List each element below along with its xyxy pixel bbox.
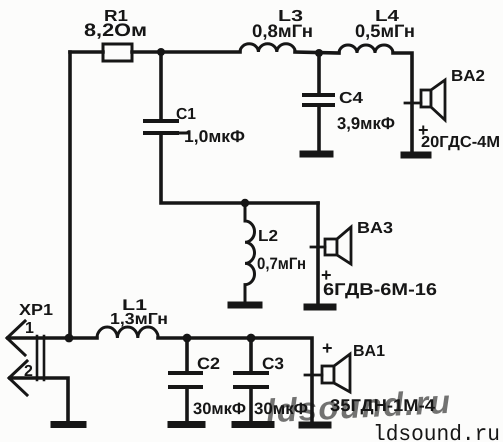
wire stub to BA2 <box>405 102 421 105</box>
ground under C3 <box>235 421 271 428</box>
capacitor C4 <box>304 95 333 105</box>
wire L3 to L4 through node B <box>295 52 339 53</box>
svg-text:ldsound.ru: ldsound.ru <box>373 422 500 442</box>
node A junction dot <box>157 48 165 56</box>
svg-text:C4: C4 <box>339 90 363 107</box>
svg-text:1: 1 <box>25 320 34 337</box>
resistor R1 <box>103 44 132 61</box>
wire L1 to BA1 corner through junctions <box>158 338 312 420</box>
wire down to BA3 and ground <box>316 203 320 304</box>
junction dot C3 <box>247 334 256 343</box>
capacitor C2 <box>170 373 201 387</box>
svg-text:C1: C1 <box>176 106 196 123</box>
wire top left from corner to R1 <box>70 50 103 54</box>
inductor L3 <box>240 44 295 52</box>
ground under C2 <box>171 421 202 428</box>
connector XP1 pin 1 arrow <box>7 321 25 355</box>
capacitor C1 <box>145 121 189 133</box>
svg-text:BA1: BA1 <box>353 343 385 360</box>
svg-text:C3: C3 <box>262 355 284 373</box>
connector XP1 pin 2 arrow <box>9 361 27 395</box>
wire junction down to C2 <box>185 338 189 371</box>
connector XP1 body lines <box>37 336 44 380</box>
ground under BA1 wire <box>302 422 328 429</box>
ground under C4 <box>303 151 330 158</box>
svg-text:2: 2 <box>24 363 33 380</box>
wire R1 to L3 through node A <box>132 50 240 54</box>
svg-text:3,9мкФ: 3,9мкФ <box>337 114 395 133</box>
wire junction down to C3 <box>249 338 253 371</box>
junction dot left bottom <box>65 334 74 343</box>
ground under L2 <box>231 302 259 309</box>
wire stub to BA3 <box>311 246 325 249</box>
wire L4 to BA2, corner down to ground <box>393 53 412 153</box>
wire node A down to C1 <box>159 52 163 119</box>
svg-text:XP1: XP1 <box>19 302 53 319</box>
ground under BA3 <box>307 304 333 311</box>
wire stub to BA1 <box>305 374 322 377</box>
svg-text:30мкФ: 30мкФ <box>254 400 308 418</box>
svg-text:6ГДВ-6М-16: 6ГДВ-6М-16 <box>323 280 437 299</box>
svg-text:35ГДН-1М-4: 35ГДН-1М-4 <box>330 396 436 415</box>
junction dot C2 <box>183 334 192 343</box>
ground under pin2 <box>54 421 83 428</box>
svg-text:L2: L2 <box>258 228 278 245</box>
svg-text:C2: C2 <box>197 355 220 373</box>
wire C1 down, corner right to BA3 branch <box>161 135 318 203</box>
wire node B down to C4 <box>317 53 321 93</box>
ground under BA2 <box>404 152 428 159</box>
inductor L2 <box>245 203 255 302</box>
node B junction dot <box>315 49 323 57</box>
svg-text:BA3: BA3 <box>357 220 393 237</box>
wire pin2 to ground <box>10 378 68 420</box>
inductor L4 <box>339 45 393 53</box>
wire C2 to ground <box>185 389 189 420</box>
capacitor C3 <box>235 373 267 387</box>
inductor L1 <box>97 327 158 338</box>
wire pin1 to L1 through left junction <box>8 336 97 340</box>
svg-text:0,5мГн: 0,5мГн <box>355 21 415 41</box>
svg-text:+: + <box>322 338 333 358</box>
node C junction dot <box>241 199 249 207</box>
speaker BA1 <box>322 354 350 392</box>
svg-text:0,7мГн: 0,7мГн <box>257 255 306 273</box>
svg-text:20ГДС-4М: 20ГДС-4М <box>421 134 500 151</box>
svg-text:1,3мГн: 1,3мГн <box>110 311 168 328</box>
svg-text:0,8мГн: 0,8мГн <box>252 21 313 41</box>
speaker BA2 <box>421 80 445 120</box>
wire C3 to ground <box>249 389 253 420</box>
svg-text:BA2: BA2 <box>451 68 485 85</box>
speaker BA3 <box>325 227 351 264</box>
wire C4 to ground <box>317 107 321 151</box>
wire left vertical from XP1 pin1 junction up to R1 row <box>68 52 72 338</box>
svg-text:1,0мкФ: 1,0мкФ <box>184 127 245 146</box>
svg-text:8,2Ом: 8,2Ом <box>84 20 147 40</box>
svg-text:30мкФ: 30мкФ <box>193 400 246 418</box>
